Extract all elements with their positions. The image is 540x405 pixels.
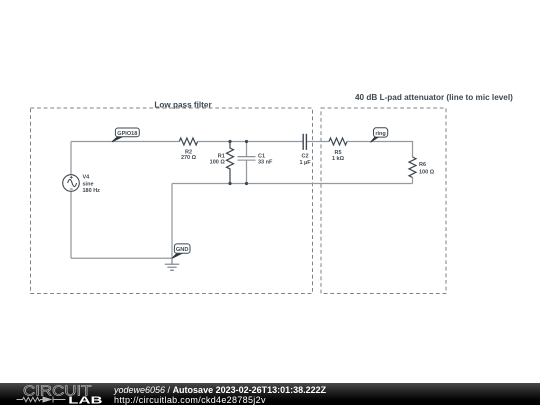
label R6 name/value (419, 162, 435, 175)
CircuitLab logo (0, 383, 110, 405)
node flag GND (172, 244, 190, 258)
svg-text:1 µF: 1 µF (299, 160, 311, 166)
junction node at R1 top (228, 140, 231, 143)
label R5 name/value (332, 150, 345, 162)
junction node at R1 bottom (228, 182, 231, 185)
svg-text:GPIO18: GPIO18 (117, 131, 138, 137)
svg-text:40 dB L-pad attenuator (line t: 40 dB L-pad attenuator (line to mic leve… (355, 93, 513, 102)
svg-text:180 Hz: 180 Hz (83, 188, 101, 194)
svg-text:C2: C2 (301, 153, 308, 159)
resistor R5 (horizontal) (329, 138, 347, 145)
voltage source V4 (63, 175, 80, 192)
label V4 name/value (83, 175, 101, 194)
wire: V4 top to top rail corner (70, 142, 72, 175)
node flag GPIO18 (112, 128, 139, 142)
label R2 name/value (181, 149, 197, 161)
enclosure box: 40 dB L-pad attenuator (321, 108, 446, 294)
wire: corner down to GND junction (171, 184, 173, 259)
junction node at C1 top (245, 140, 248, 143)
label C2 name/value (299, 153, 311, 166)
footer bar (0, 383, 540, 405)
wire: C2 right plate to R5 left (306, 141, 329, 143)
svg-text:100 Ω: 100 Ω (419, 169, 435, 175)
svg-text:R6: R6 (419, 162, 426, 168)
svg-text:1 kΩ: 1 kΩ (332, 156, 345, 162)
svg-text:33 nF: 33 nF (258, 160, 273, 166)
svg-text:LAB: LAB (68, 396, 102, 405)
svg-text:270 Ω: 270 Ω (181, 155, 197, 161)
label R1 name/value (210, 153, 226, 165)
footer text (114, 386, 326, 405)
wire: V4 bottom down to return wire (70, 191, 72, 258)
enclosure box: Low pass filter (31, 108, 313, 294)
wire: bottom rail from R6 to C1 bottom node (247, 183, 413, 185)
wire: C1 bottom node to R1 bottom node (230, 183, 247, 185)
resistor R6 (vertical) (409, 157, 416, 178)
svg-text:ring: ring (375, 131, 385, 137)
wire: R2 right to node at R1 top (198, 141, 230, 143)
wire: R5 right to corner and down to R6 top (347, 142, 413, 158)
svg-text:Low pass filter: Low pass filter (154, 100, 212, 109)
capacitor C2 (series, horizontal) (303, 134, 306, 150)
wire: R1 bottom node to bottom-left corner (172, 183, 230, 185)
svg-text:100 Ω: 100 Ω (210, 160, 226, 166)
resistor R2 (horizontal) (179, 138, 197, 145)
wire: GND junction left to V4 column (71, 257, 172, 259)
capacitor C1 (vertical shunt) (238, 142, 256, 184)
wire: R6 bottom to bottom rail (412, 178, 414, 184)
junction node at C1 bottom (245, 182, 248, 185)
node flag ring (371, 128, 388, 143)
svg-text:sine: sine (83, 181, 94, 187)
wire: top rail corner to R2 left (71, 141, 179, 143)
label C1 name/value (258, 153, 273, 165)
wire: R1 top node to C1 top node (230, 141, 247, 143)
svg-text:R1: R1 (218, 153, 225, 159)
svg-text:V4: V4 (83, 175, 91, 181)
wire: C1 top node to C2 left plate (247, 141, 304, 143)
ground symbol (165, 258, 179, 270)
resistor R1 (vertical shunt) (227, 142, 234, 184)
svg-text:GND: GND (176, 247, 189, 253)
svg-text:C1: C1 (258, 153, 265, 159)
